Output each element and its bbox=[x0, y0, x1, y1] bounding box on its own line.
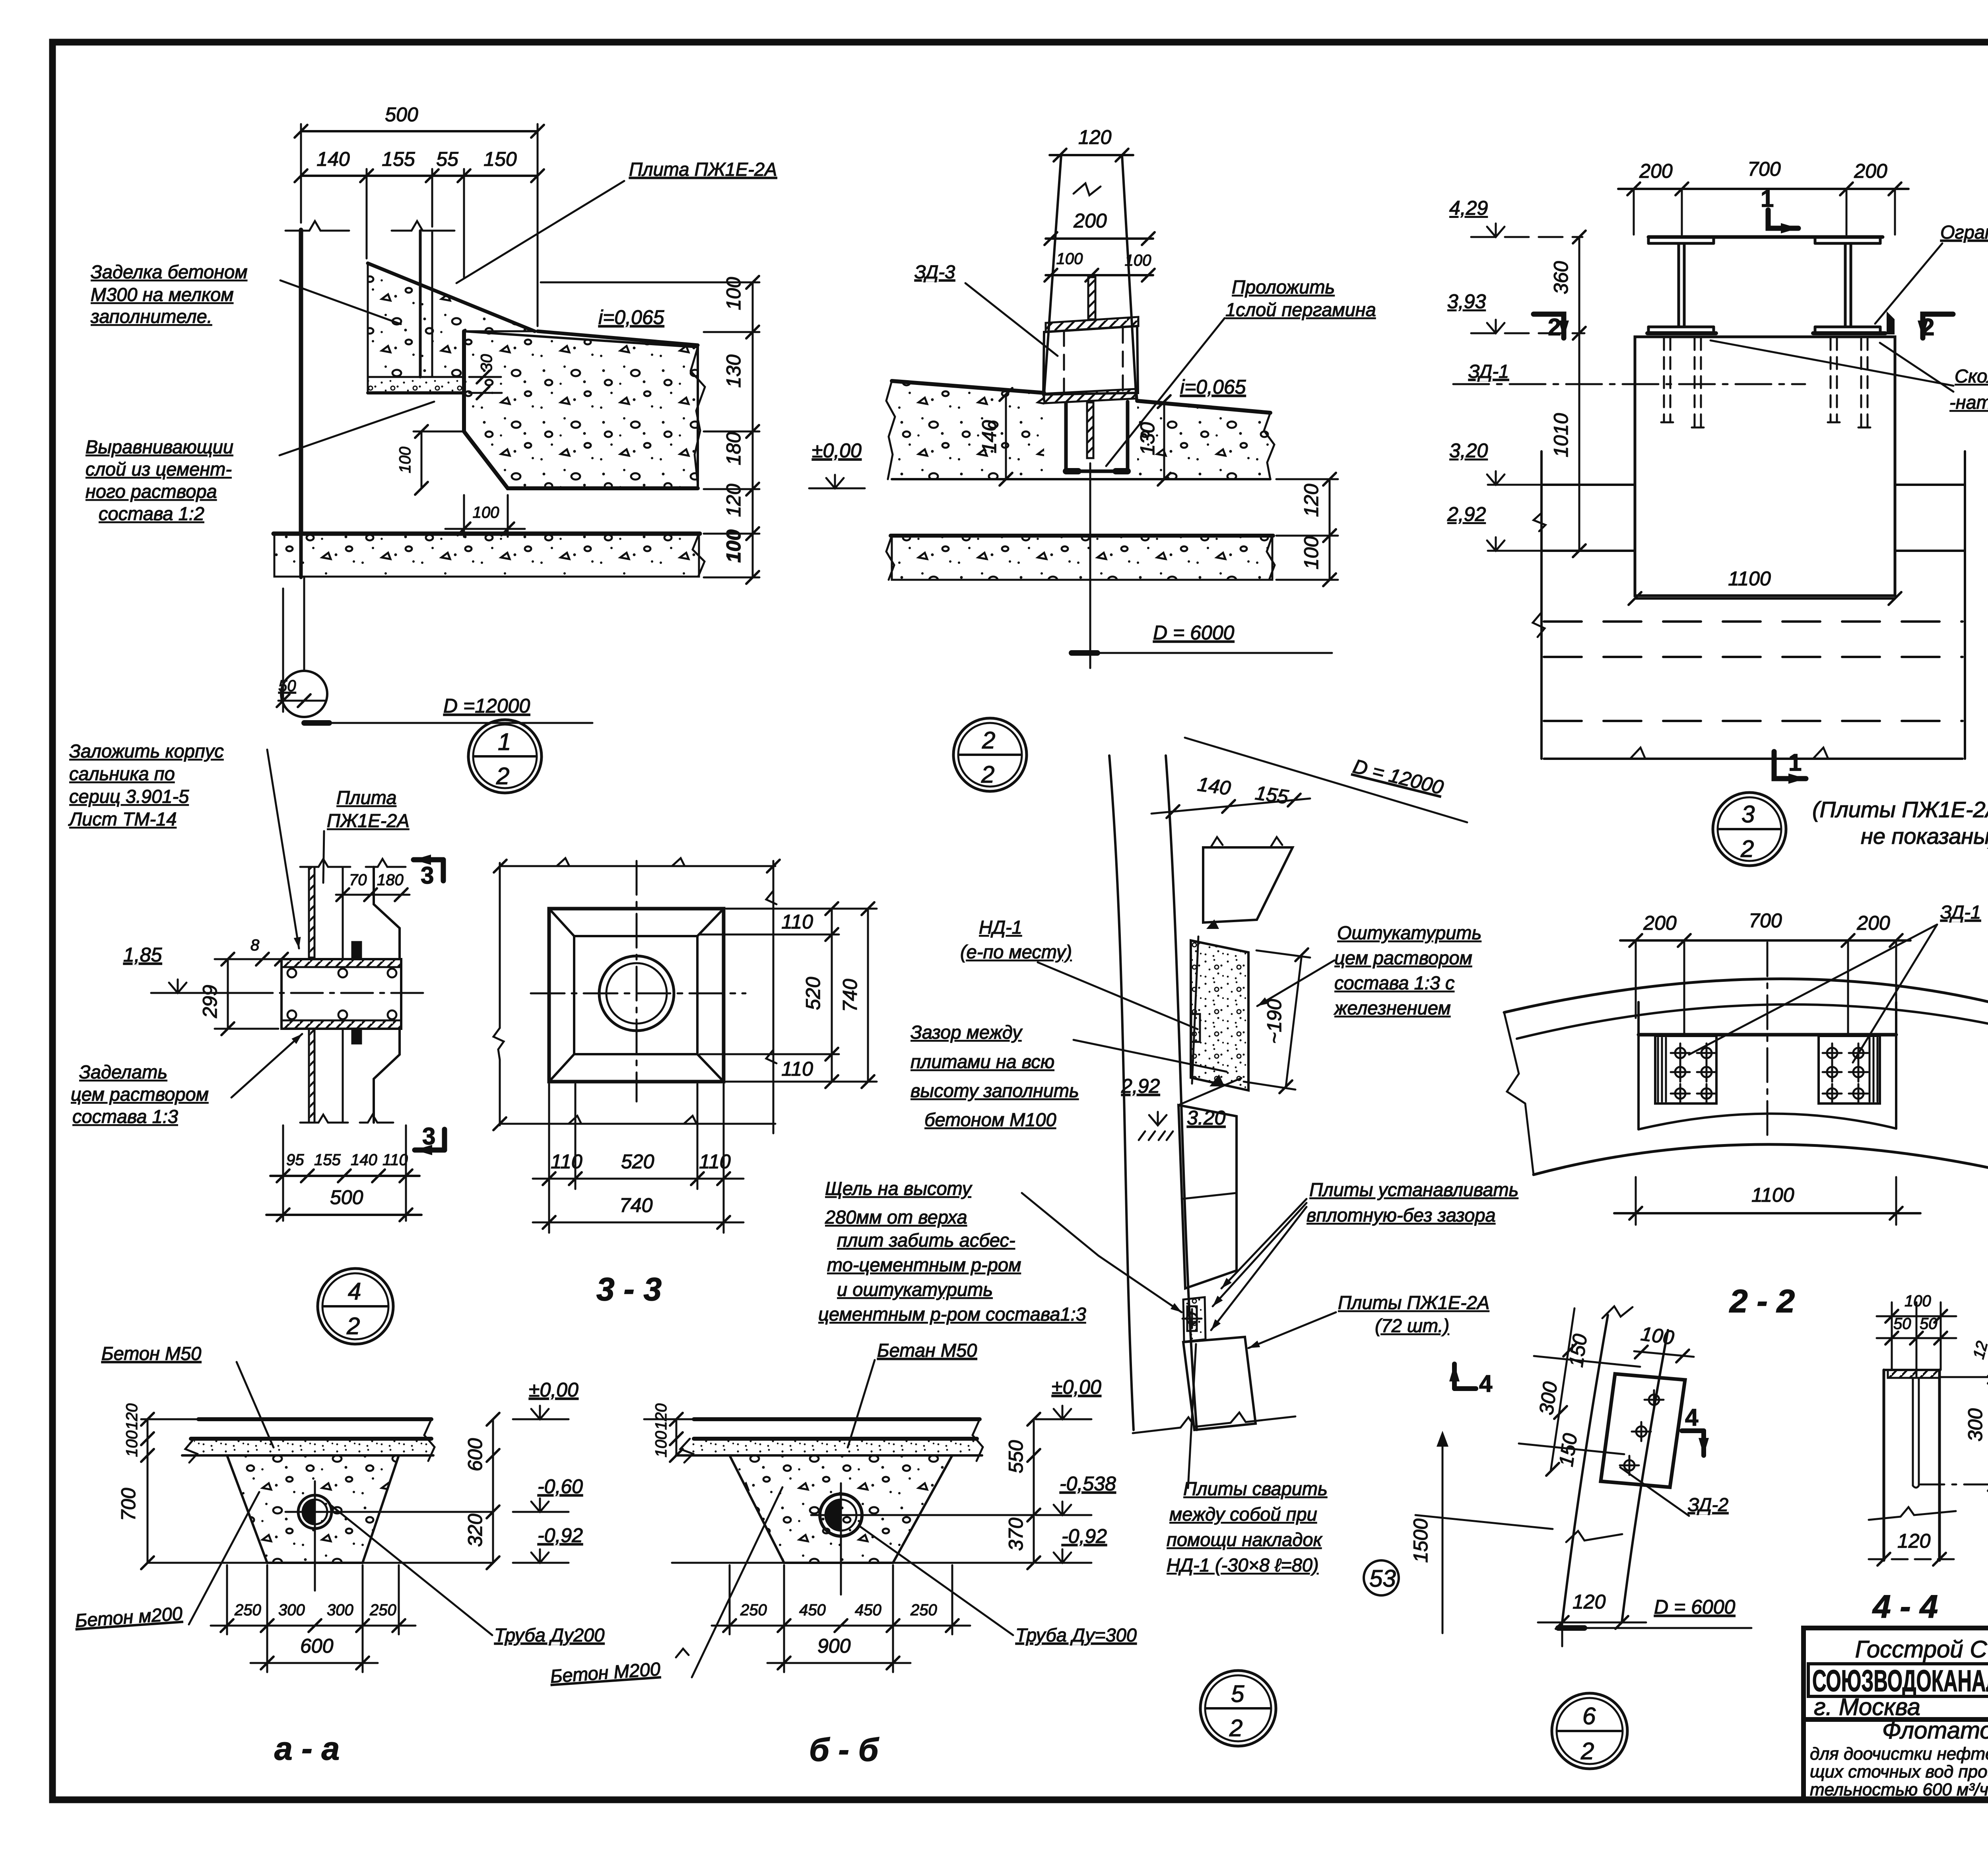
svg-text:700: 700 bbox=[117, 1488, 140, 1521]
labels bottom-left bbox=[71, 1061, 209, 1127]
svg-text:бетоном М100: бетоном М100 bbox=[924, 1109, 1056, 1130]
svg-text:520: 520 bbox=[621, 1150, 654, 1173]
plate ПЖ1Е-2А vertical section lines bbox=[419, 231, 422, 377]
svg-text:между собой при: между собой при bbox=[1169, 1504, 1317, 1525]
concrete wedge fill bbox=[368, 263, 535, 377]
dim 200 bbox=[1046, 237, 1153, 240]
circle 3/2 bbox=[1713, 793, 1786, 866]
svg-text:100: 100 bbox=[396, 447, 414, 473]
svg-text:D = 6000: D = 6000 bbox=[1153, 622, 1235, 644]
svg-text:500: 500 bbox=[330, 1186, 363, 1208]
channel bbox=[1884, 1369, 1939, 1371]
right dim chain bbox=[492, 1419, 494, 1563]
vertical dims 140 / 130 bbox=[1005, 394, 1007, 479]
right dim chain 120/100 bbox=[1329, 479, 1331, 580]
svg-text:1слой пергамина: 1слой пергамина bbox=[1225, 299, 1376, 320]
top break lines of wall and plate bbox=[285, 221, 349, 231]
dims 70 180 bbox=[336, 894, 410, 896]
svg-text:280мм от верха: 280мм от верха bbox=[825, 1206, 967, 1228]
svg-text:заполнителе.: заполнителе. bbox=[90, 306, 212, 327]
break on column bbox=[1074, 183, 1101, 195]
svg-text:Скользящие опоры: Скользящие опоры bbox=[1955, 365, 1988, 387]
svg-text:100: 100 bbox=[1639, 1322, 1675, 1349]
svg-text:то-цементным р-ром: то-цементным р-ром bbox=[827, 1254, 1021, 1275]
svg-text:цементным р-ром состава1:3: цементным р-ром состава1:3 bbox=[818, 1304, 1086, 1325]
svg-text:состава 1:2: состава 1:2 bbox=[99, 503, 204, 524]
bottom dims bbox=[226, 1565, 228, 1634]
svg-text:200: 200 bbox=[1856, 912, 1890, 934]
svg-text:±0,00: ±0,00 bbox=[529, 1379, 579, 1401]
step dims 100 bbox=[414, 431, 464, 433]
svg-text:120: 120 bbox=[1573, 1591, 1606, 1613]
svg-text:300: 300 bbox=[1964, 1408, 1986, 1441]
vertical dim 360/1010 bbox=[1578, 237, 1580, 551]
svg-text:Госстрой СССР: Госстрой СССР bbox=[1855, 1636, 1988, 1663]
lower strip bbox=[892, 536, 1272, 580]
end breaks bbox=[1504, 1012, 1534, 1175]
svg-text:110: 110 bbox=[781, 911, 813, 933]
circle 2/2 bbox=[953, 718, 1027, 791]
svg-text:700: 700 bbox=[1747, 158, 1781, 180]
right dims bbox=[831, 909, 833, 1082]
extension lines bbox=[300, 124, 302, 223]
svg-text:3,93: 3,93 bbox=[1447, 290, 1486, 313]
svg-text:Труба Ду200: Труба Ду200 bbox=[494, 1624, 604, 1645]
svg-text:ЗД-3: ЗД-3 bbox=[914, 261, 955, 282]
svg-text:б - б: б - б bbox=[809, 1732, 879, 1768]
svg-text:55: 55 bbox=[436, 148, 458, 170]
svg-text:3: 3 bbox=[422, 1123, 435, 1150]
svg-text:180: 180 bbox=[377, 871, 404, 889]
plate ЗД-2 bbox=[1601, 1374, 1685, 1487]
bottom plate bbox=[1183, 1337, 1256, 1430]
svg-text:140: 140 bbox=[1196, 773, 1232, 799]
svg-text:М300 на мелком: М300 на мелком bbox=[91, 284, 234, 305]
svg-text:100: 100 bbox=[652, 1431, 670, 1457]
svg-text:100: 100 bbox=[1056, 250, 1083, 268]
svg-text:Проложить: Проложить bbox=[1232, 276, 1335, 297]
left dim chain bbox=[147, 1419, 149, 1563]
svg-text:140: 140 bbox=[978, 420, 1000, 453]
svg-text:2,92: 2,92 bbox=[1447, 503, 1486, 525]
bottom dims bbox=[548, 1084, 550, 1233]
section 3 marks bbox=[414, 857, 443, 863]
svg-text:Бетан М50: Бетан М50 bbox=[877, 1340, 977, 1361]
svg-text:550: 550 bbox=[1005, 1440, 1027, 1473]
svg-text:140: 140 bbox=[316, 148, 350, 170]
base plates bbox=[1647, 331, 1716, 335]
circle 5/2 bbox=[1200, 1671, 1276, 1746]
svg-text:3 - 3: 3 - 3 bbox=[596, 1271, 662, 1307]
svg-text:150: 150 bbox=[1565, 1333, 1591, 1369]
svg-text:i=0,065: i=0,065 bbox=[598, 306, 664, 328]
joint block hatched (бетон М100) bbox=[1191, 940, 1248, 1090]
stuffing hatched block upper bbox=[352, 942, 361, 958]
svg-text:250: 250 bbox=[234, 1601, 261, 1619]
trapezoid bbox=[730, 1455, 952, 1563]
svg-text:Бетон м200: Бетон м200 bbox=[74, 1603, 183, 1631]
right slab block with step bbox=[464, 331, 698, 488]
svg-text:450: 450 bbox=[799, 1601, 826, 1619]
pedestal bbox=[1635, 337, 1895, 596]
svg-text:Щель на высоту: Щель на высоту bbox=[825, 1178, 973, 1199]
svg-text:30: 30 bbox=[478, 354, 495, 372]
svg-text:-0,538: -0,538 bbox=[1060, 1473, 1116, 1495]
bottom line bbox=[148, 1562, 493, 1564]
middle rib bbox=[1913, 1378, 1919, 1488]
shelf lines / tank walls bbox=[1541, 484, 1635, 486]
~190 dim bbox=[1286, 955, 1302, 1087]
centerline ЗД-1 bbox=[1453, 383, 1805, 385]
svg-text:1: 1 bbox=[1788, 749, 1802, 776]
svg-text:а - а: а - а bbox=[274, 1731, 340, 1767]
break zigzag right edge bbox=[691, 347, 705, 484]
bottom dims bbox=[270, 1175, 419, 1177]
svg-text:2: 2 bbox=[496, 763, 509, 789]
svg-text:Бетон М50: Бетон М50 bbox=[101, 1343, 201, 1364]
svg-text:ЗД-1: ЗД-1 bbox=[1940, 901, 1981, 923]
svg-text:12: 12 bbox=[1970, 1339, 1988, 1361]
svg-text:щих сточных вод производи-: щих сточных вод производи- bbox=[1810, 1762, 1988, 1781]
svg-text:Заделать: Заделать bbox=[79, 1061, 167, 1082]
svg-text:2: 2 bbox=[1740, 835, 1754, 862]
leveling mortar strip bbox=[368, 377, 464, 393]
НД-1 strap in joint bbox=[1191, 1014, 1200, 1042]
svg-text:700: 700 bbox=[1749, 909, 1782, 932]
svg-text:500: 500 bbox=[385, 103, 418, 126]
svg-text:100: 100 bbox=[1125, 252, 1151, 269]
right dim chain bbox=[1033, 1419, 1035, 1563]
dims 200 700 200 bbox=[1620, 939, 1910, 942]
centerline bbox=[1767, 942, 1769, 1141]
100 / 50 50 dims bbox=[1877, 1315, 1956, 1317]
svg-text:±0,00: ±0,00 bbox=[1052, 1376, 1101, 1398]
svg-text:Бетон М200: Бетон М200 bbox=[549, 1658, 661, 1687]
upper pipe bbox=[309, 867, 315, 958]
svg-text:600: 600 bbox=[300, 1635, 334, 1657]
svg-text:130: 130 bbox=[722, 354, 745, 388]
stopper bbox=[1888, 314, 1893, 333]
svg-text:450: 450 bbox=[855, 1601, 881, 1619]
svg-text:(е-по месту): (е-по месту) bbox=[960, 941, 1072, 962]
svg-text:2: 2 bbox=[1580, 1738, 1594, 1764]
left labels bbox=[90, 261, 247, 327]
svg-text:ЗД-1: ЗД-1 bbox=[1468, 361, 1509, 382]
svg-text:тельностью 600 м³/час: тельностью 600 м³/час bbox=[1810, 1780, 1988, 1799]
svg-text:i=0,065: i=0,065 bbox=[1180, 376, 1246, 398]
svg-text:100: 100 bbox=[123, 1430, 141, 1457]
svg-text:53: 53 bbox=[1369, 1565, 1396, 1592]
svg-text:600: 600 bbox=[464, 1438, 486, 1471]
299 dim bbox=[227, 959, 229, 1029]
svg-text:Труба Ду=300: Труба Ду=300 bbox=[1015, 1624, 1137, 1645]
svg-text:5: 5 bbox=[1231, 1680, 1244, 1707]
svg-text:сериц 3.901-5: сериц 3.901-5 bbox=[69, 786, 189, 807]
svg-text:СОЮЗВОДОКАНАЛПРОЕКТ: СОЮЗВОДОКАНАЛПРОЕКТ bbox=[1812, 1664, 1988, 1698]
svg-text:1,85: 1,85 bbox=[123, 944, 162, 966]
dim 500 bbox=[301, 130, 538, 132]
svg-text:299: 299 bbox=[199, 985, 221, 1018]
svg-text:4,29: 4,29 bbox=[1449, 197, 1488, 219]
svg-text:помощи накладок: помощи накладок bbox=[1167, 1529, 1323, 1550]
svg-text:6: 6 bbox=[1582, 1703, 1596, 1729]
bottom slab bbox=[274, 534, 699, 577]
svg-text:120: 120 bbox=[1897, 1530, 1931, 1552]
bottom break bbox=[1133, 1412, 1295, 1433]
svg-text:155: 155 bbox=[314, 1151, 341, 1169]
svg-text:не показаны): не показаны) bbox=[1861, 824, 1988, 849]
1100 dim bbox=[1614, 1212, 1920, 1214]
svg-text:8: 8 bbox=[250, 936, 260, 954]
upper rib + plate bbox=[1088, 277, 1095, 319]
svg-text:740: 740 bbox=[619, 1194, 653, 1216]
outer band arcs bbox=[1504, 979, 1988, 1013]
svg-text:250: 250 bbox=[910, 1601, 937, 1619]
svg-text:110: 110 bbox=[551, 1150, 582, 1173]
svg-text:D = 6000: D = 6000 bbox=[1654, 1596, 1736, 1618]
svg-text:сальника по: сальника по bbox=[69, 763, 175, 784]
wall line through slab bbox=[299, 534, 303, 577]
svg-text:110: 110 bbox=[781, 1058, 813, 1080]
svg-text:слой из цемент-: слой из цемент- bbox=[85, 458, 232, 480]
1500 vertical dim bbox=[1442, 1440, 1444, 1633]
svg-text:300: 300 bbox=[1535, 1380, 1561, 1416]
svg-text:370: 370 bbox=[1005, 1517, 1027, 1551]
pipe bbox=[298, 1495, 332, 1529]
svg-text:140: 140 bbox=[351, 1151, 377, 1169]
svg-text:1: 1 bbox=[498, 729, 511, 755]
svg-text:г. Москва: г. Москва bbox=[1814, 1694, 1920, 1720]
svg-text:100: 100 bbox=[473, 504, 499, 521]
svg-text:1100: 1100 bbox=[1728, 567, 1771, 590]
svg-text:(Плиты ПЖ1Е-2А условно: (Плиты ПЖ1Е-2А условно bbox=[1812, 797, 1988, 822]
svg-text:2: 2 bbox=[346, 1313, 360, 1339]
svg-text:2,92: 2,92 bbox=[1121, 1075, 1160, 1097]
trapezoid bbox=[227, 1455, 399, 1563]
svg-text:130: 130 bbox=[1136, 422, 1159, 455]
svg-text:железнением: железнением bbox=[1334, 997, 1451, 1018]
Проложить 1слой пергамина bbox=[1225, 276, 1376, 320]
svg-text:320: 320 bbox=[464, 1513, 486, 1547]
top dims 200 700 200 bbox=[1618, 188, 1908, 190]
svg-text:120: 120 bbox=[1078, 126, 1112, 148]
svg-text:плит забить асбес-: плит забить асбес- bbox=[837, 1230, 1015, 1251]
svg-text:-0,60: -0,60 bbox=[538, 1475, 583, 1498]
right dim chain bbox=[752, 282, 754, 577]
svg-text:для доочистки нефтесодержа-: для доочистки нефтесодержа- bbox=[1810, 1744, 1988, 1764]
svg-text:155: 155 bbox=[1254, 781, 1290, 808]
svg-text:200: 200 bbox=[1639, 160, 1673, 182]
svg-text:100: 100 bbox=[1300, 536, 1322, 569]
svg-text:200: 200 bbox=[1854, 160, 1887, 182]
dashed foundation lines bbox=[1544, 622, 1963, 721]
top plate pair bbox=[1203, 847, 1293, 923]
svg-text:2: 2 bbox=[1229, 1715, 1242, 1741]
anchor bolts dashed bbox=[1664, 338, 1868, 427]
svg-text:120: 120 bbox=[1300, 484, 1322, 517]
svg-text:200: 200 bbox=[1643, 912, 1677, 934]
svg-text:4: 4 bbox=[1685, 1404, 1699, 1431]
lower pipe bbox=[309, 1029, 315, 1123]
slab top edges bbox=[892, 381, 1044, 393]
svg-text:Плиты ПЖ1Е-2А: Плиты ПЖ1Е-2А bbox=[1338, 1292, 1489, 1313]
svg-text:вплотную-без зазора: вплотную-без зазора bbox=[1307, 1204, 1496, 1226]
long left arc of wall bbox=[1109, 756, 1134, 1430]
circle 6/2 bbox=[1552, 1693, 1627, 1769]
D = 12000 radius leader bbox=[1185, 738, 1467, 822]
svg-text:4: 4 bbox=[1479, 1370, 1493, 1397]
svg-text:плитами на всю: плитами на всю bbox=[911, 1051, 1054, 1072]
svg-text:3: 3 bbox=[421, 862, 434, 889]
section 4 marks bbox=[1452, 1364, 1457, 1389]
lower joint with НД-1 bbox=[1183, 1297, 1206, 1342]
svg-text:цем раствором: цем раствором bbox=[1334, 947, 1472, 968]
svg-text:Выравнивающии: Выравнивающии bbox=[85, 436, 233, 457]
slab body hatch (left & right of pocket) bbox=[892, 381, 1044, 479]
svg-text:150: 150 bbox=[1555, 1432, 1581, 1468]
svg-text:Флотатор: Флотатор bbox=[1882, 1717, 1988, 1744]
slab lines bbox=[198, 1417, 431, 1421]
pipe bbox=[820, 1494, 862, 1536]
svg-text:155: 155 bbox=[382, 148, 415, 170]
wall edge (thick) bbox=[299, 230, 303, 534]
svg-text:2: 2 bbox=[982, 727, 995, 754]
svg-text:4 - 4: 4 - 4 bbox=[1872, 1589, 1938, 1625]
circle 1/2 bbox=[468, 720, 542, 793]
labels bbox=[960, 917, 1072, 962]
svg-text:состава 1:3 с: состава 1:3 с bbox=[1334, 972, 1455, 993]
svg-text:D =12000: D =12000 bbox=[443, 695, 530, 717]
dim 120 bbox=[1050, 154, 1133, 156]
svg-text:180: 180 bbox=[722, 432, 745, 465]
labels top-left bbox=[68, 740, 224, 830]
svg-text:110: 110 bbox=[699, 1150, 731, 1173]
I-beam right bbox=[1815, 242, 1880, 245]
long joint lines with breaks bbox=[500, 865, 775, 867]
weld triangle at top of mid plate bbox=[1209, 1074, 1225, 1086]
svg-text:2 - 2: 2 - 2 bbox=[1729, 1283, 1795, 1319]
svg-text:цем раствором: цем раствором bbox=[71, 1084, 209, 1105]
svg-text:Ограничитель: Ограничитель bbox=[1940, 221, 1988, 243]
svg-text:ПЖ1Е-2А: ПЖ1Е-2А bbox=[327, 810, 410, 831]
svg-text:520: 520 bbox=[802, 977, 824, 1010]
pocket bbox=[1639, 1033, 1896, 1037]
bottom line bbox=[672, 1562, 1034, 1564]
svg-text:250: 250 bbox=[740, 1601, 767, 1619]
dims along strip bbox=[1534, 1356, 1640, 1367]
mid panel bbox=[1178, 1105, 1237, 1288]
circle 4/2 bbox=[318, 1269, 393, 1344]
svg-text:1500: 1500 bbox=[1409, 1519, 1432, 1563]
svg-text:2: 2 bbox=[981, 761, 994, 788]
svg-text:50: 50 bbox=[1893, 1315, 1911, 1333]
svg-text:НД-1: НД-1 bbox=[979, 917, 1022, 938]
svg-text:±0,00: ±0,00 bbox=[812, 439, 862, 462]
column axis + circle bbox=[303, 577, 305, 671]
svg-text:200: 200 bbox=[1073, 210, 1107, 232]
left small dims bbox=[676, 1419, 678, 1455]
top/bottom breaks bbox=[1602, 1306, 1633, 1318]
svg-text:740: 740 bbox=[839, 979, 861, 1012]
I-beam left bbox=[1648, 237, 1883, 333]
svg-text:Оштукатурить: Оштукатурить bbox=[1337, 922, 1481, 943]
axis + D=6000 bbox=[1089, 463, 1091, 668]
svg-text:~190: ~190 bbox=[1263, 999, 1285, 1044]
svg-text:3: 3 bbox=[1741, 801, 1755, 828]
svg-text:Зазор между: Зазор между bbox=[911, 1022, 1023, 1043]
svg-text:1010: 1010 bbox=[1550, 413, 1572, 457]
svg-text:Плита: Плита bbox=[336, 787, 396, 808]
flange body bbox=[282, 959, 401, 1029]
svg-text:100: 100 bbox=[1905, 1292, 1931, 1310]
svg-text:50: 50 bbox=[1920, 1315, 1938, 1333]
dim row 140 155 55 150 bbox=[301, 175, 538, 177]
svg-text:120: 120 bbox=[652, 1403, 670, 1430]
svg-text:Плиты устанавливать: Плиты устанавливать bbox=[1309, 1179, 1518, 1200]
svg-text:900: 900 bbox=[817, 1635, 851, 1657]
svg-text:150: 150 bbox=[483, 148, 517, 170]
svg-text:1100: 1100 bbox=[1751, 1184, 1794, 1206]
strip edges bbox=[1562, 1315, 1608, 1622]
svg-text:-0,92: -0,92 bbox=[538, 1524, 583, 1546]
svg-text:Лист ТМ-14: Лист ТМ-14 bbox=[68, 808, 177, 830]
svg-text:высоту заполнить: высоту заполнить bbox=[911, 1080, 1079, 1101]
break bbox=[1869, 1507, 1956, 1520]
encasement box with dashed bolts bbox=[1043, 326, 1138, 394]
svg-text:95: 95 bbox=[286, 1151, 304, 1169]
dim 30 near channel bottom bbox=[477, 371, 489, 383]
svg-text:Плиты сварить: Плиты сварить bbox=[1183, 1478, 1328, 1499]
svg-text:120: 120 bbox=[123, 1403, 141, 1430]
svg-text:ЗД-2: ЗД-2 bbox=[1688, 1494, 1728, 1515]
svg-text:Заделка бетоном: Заделка бетоном bbox=[91, 261, 247, 282]
dims 100 100 bbox=[1046, 274, 1153, 276]
bottom dims bbox=[729, 1565, 731, 1634]
svg-text:-0,92: -0,92 bbox=[1062, 1525, 1107, 1547]
elevations left bbox=[1447, 197, 1488, 525]
rib below into pocket bbox=[1087, 402, 1093, 458]
svg-text:250: 250 bbox=[369, 1601, 396, 1619]
svg-text:70: 70 bbox=[349, 871, 367, 889]
svg-text:300: 300 bbox=[327, 1601, 353, 1619]
column edges (tilted) bbox=[1044, 155, 1061, 400]
svg-text:(72 шт.): (72 шт.) bbox=[1375, 1315, 1449, 1336]
svg-text:3,20: 3,20 bbox=[1449, 439, 1488, 462]
small break on left wall bbox=[1534, 513, 1545, 531]
svg-text:ного раствора: ного раствора bbox=[85, 481, 217, 502]
bottom plate at slab bbox=[1044, 389, 1137, 403]
svg-text:и оштукатурить: и оштукатурить bbox=[837, 1279, 993, 1300]
svg-text:110: 110 bbox=[382, 1151, 408, 1169]
svg-text:Заложить корпус: Заложить корпус bbox=[69, 740, 224, 762]
slab lines bbox=[694, 1417, 980, 1421]
pocket bbox=[1066, 402, 1128, 471]
svg-text:300: 300 bbox=[278, 1601, 305, 1619]
svg-text:-натереть графитом: -натереть графитом bbox=[1949, 392, 1988, 413]
svg-text:4: 4 bbox=[348, 1278, 361, 1305]
svg-text:НД-1 (-30×8 ℓ=80): НД-1 (-30×8 ℓ=80) bbox=[1167, 1554, 1319, 1576]
svg-text:2: 2 bbox=[1548, 314, 1561, 340]
svg-text:состава 1:3: состава 1:3 bbox=[72, 1106, 178, 1127]
svg-text:360: 360 bbox=[1550, 261, 1572, 294]
top dims 140 155 bbox=[1151, 798, 1310, 814]
plate groups bbox=[1655, 1036, 1880, 1103]
svg-text:Плита ПЖ1Е-2А: Плита ПЖ1Е-2А bbox=[629, 159, 777, 180]
